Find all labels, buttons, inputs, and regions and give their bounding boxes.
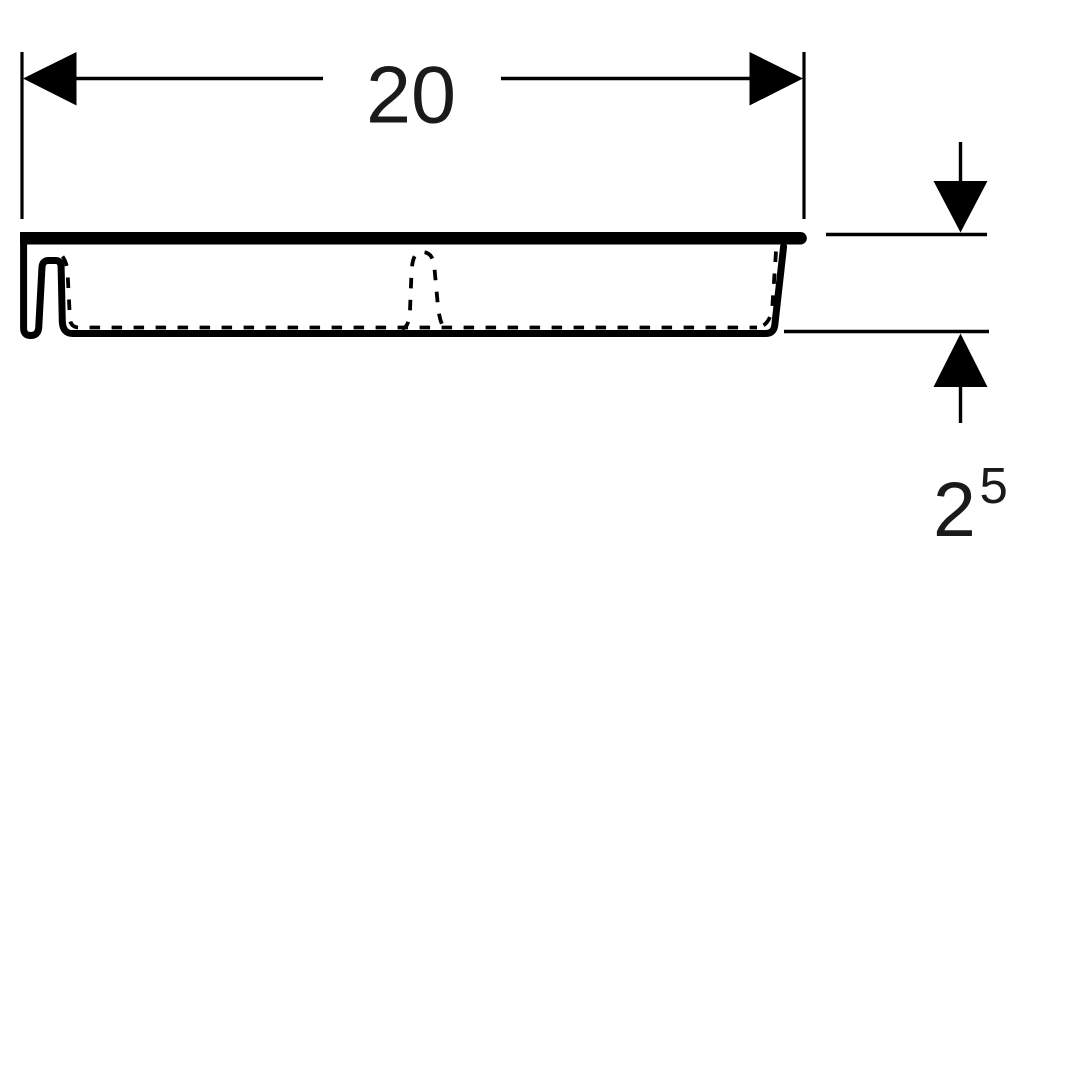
hidden dome (dashed bump in middle) — [402, 252, 446, 329]
extension line right (width dim) — [802, 52, 805, 219]
arrowhead left — [23, 52, 77, 106]
hidden contour dashed: inner right wall — [757, 252, 776, 328]
profile top plate (thick bar) — [20, 232, 795, 245]
extension line upper (height dim) — [826, 233, 987, 236]
height dim upper tail line — [959, 142, 962, 181]
svg-text:5: 5 — [980, 457, 1008, 514]
arrowhead up — [934, 334, 988, 388]
hidden contour dashed: behind hook then along bottom — [63, 257, 758, 328]
arrowhead down — [934, 181, 988, 233]
extension line left (width dim) — [20, 52, 23, 219]
height dim lower tail line — [959, 387, 962, 423]
profile top plate rounded right end — [780, 232, 801, 245]
profile outline: left wall, hook, bottom, right wall — [24, 238, 784, 336]
extension line lower (height dim) — [784, 330, 989, 333]
svg-text:2: 2 — [933, 467, 976, 553]
arrowhead right — [750, 52, 804, 106]
dimension line right segment — [501, 77, 765, 81]
svg-text:20: 20 — [366, 51, 456, 141]
dimension line left segment — [60, 77, 323, 81]
